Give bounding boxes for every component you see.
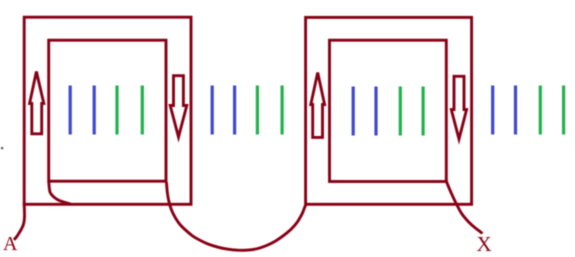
slot conductor green 2 group 4 [562,86,565,135]
lead wire to terminal X [446,181,482,234]
svg-text:A: A [3,233,18,255]
up arrow coil 1 [30,72,44,134]
slot conductor green 1 group 1 [115,86,118,135]
slot conductor blue 1 group 3 [352,87,355,136]
coil 1 inner-left lead curve [49,183,71,205]
down arrow coil 1 [170,76,187,137]
coil 2 inner rectangle [330,40,447,181]
connecting wire loop between coils [166,182,306,250]
slot conductor green 1 group 3 [399,87,402,136]
slot conductor blue 2 group 2 [233,86,236,135]
slot conductor green 2 group 3 [422,87,425,136]
svg-text:X: X [477,232,492,256]
slot conductor green 2 group 2 [281,86,284,135]
coil 1 outer rectangle [24,17,191,204]
coil 1 inner rectangle [49,40,166,181]
coil 2 outer rectangle [306,17,472,204]
slot conductor blue 1 group 2 [211,86,214,135]
up arrow coil 2 [311,73,325,138]
stray dot [1,147,3,149]
slot conductor green 1 group 4 [539,86,542,135]
slot conductor blue 2 group 1 [93,86,96,135]
slot conductor green 1 group 2 [256,86,259,135]
slot conductor green 2 group 1 [141,86,144,135]
slot conductor blue 1 group 4 [491,86,494,135]
down arrow coil 2 [451,76,466,139]
slot conductor blue 2 group 3 [374,87,377,136]
slot conductor blue 2 group 4 [514,86,517,135]
lead wire to terminal A [14,203,25,240]
slot conductor blue 1 group 1 [69,86,72,135]
